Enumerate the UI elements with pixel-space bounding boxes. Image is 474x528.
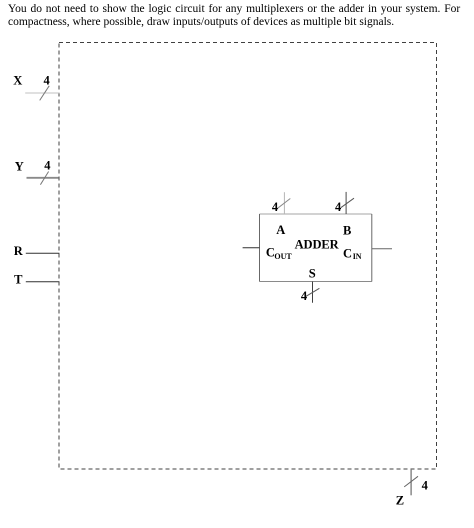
- svg-text:4: 4: [272, 200, 279, 214]
- bus slash Y: [40, 172, 48, 185]
- wire Y: [27, 177, 59, 179]
- svg-text:T: T: [14, 273, 23, 287]
- wire Cout stub (left): [243, 247, 260, 249]
- adder block U1 body: [260, 214, 372, 282]
- bus slash Z: [404, 476, 418, 487]
- wire A input (vertical): [283, 192, 285, 214]
- svg-text:compactness, where possible, d: compactness, where possible, draw inputs…: [8, 16, 394, 28]
- svg-text:4: 4: [44, 159, 51, 173]
- svg-text:4: 4: [335, 200, 342, 214]
- svg-text:X: X: [13, 74, 22, 88]
- svg-text:Z: Z: [396, 493, 404, 507]
- wire Cin stub (right): [372, 248, 392, 250]
- svg-text:OUT: OUT: [274, 252, 292, 261]
- svg-text:You do not need to show the lo: You do not need to show the logic circui…: [8, 3, 460, 15]
- bus slash A: [278, 199, 291, 209]
- wire X: [25, 92, 59, 94]
- instruction text paragraph: [8, 3, 460, 28]
- svg-text:ADDER: ADDER: [295, 237, 340, 251]
- svg-text:4: 4: [44, 74, 51, 88]
- wire Z output (vertical): [410, 469, 412, 495]
- bus slash S: [305, 288, 319, 297]
- wire R: [26, 252, 60, 254]
- svg-text:A: A: [276, 223, 285, 237]
- svg-text:R: R: [14, 244, 24, 258]
- wire T: [26, 281, 60, 283]
- bus slash X: [40, 86, 50, 101]
- pin label Cin: [343, 247, 362, 262]
- svg-text:4: 4: [422, 479, 429, 493]
- svg-text:S: S: [309, 267, 316, 281]
- wire B input (vertical): [345, 192, 347, 214]
- svg-text:4: 4: [301, 289, 308, 303]
- svg-text:C: C: [343, 247, 352, 261]
- system boundary dashed box: [59, 43, 437, 470]
- svg-text:Y: Y: [15, 159, 24, 173]
- wire S output (vertical): [312, 282, 314, 303]
- bus slash B: [341, 198, 354, 208]
- svg-text:IN: IN: [353, 252, 362, 261]
- svg-text:B: B: [343, 224, 351, 238]
- pin label Cout: [266, 245, 293, 260]
